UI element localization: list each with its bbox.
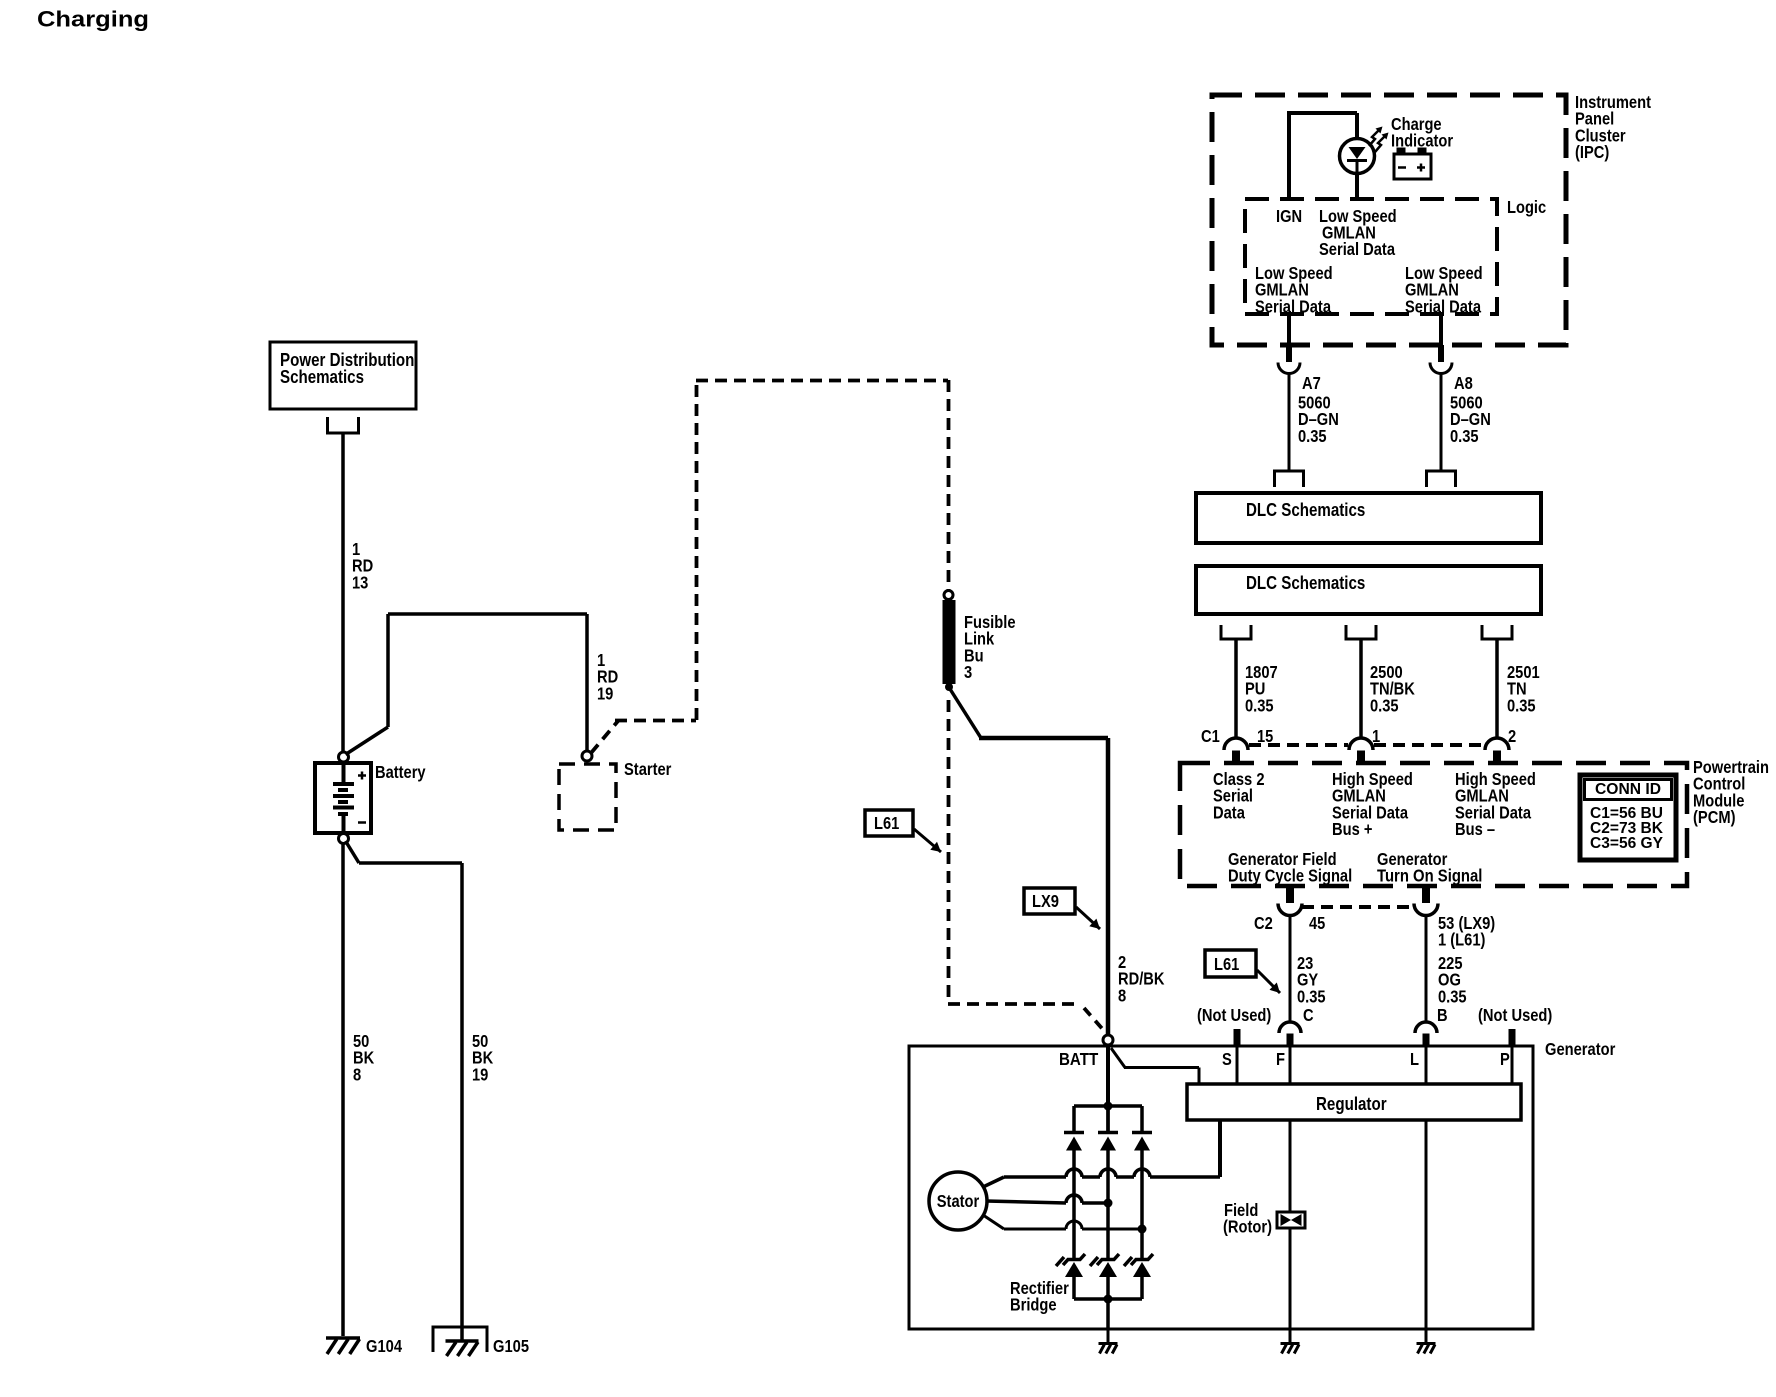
svg-text:(Not Used): (Not Used) — [1478, 1005, 1552, 1025]
svg-text:0.35: 0.35 — [1438, 986, 1467, 1006]
svg-text:Charging: Charging — [37, 7, 149, 32]
svg-text:G104: G104 — [366, 1336, 402, 1356]
svg-text:13: 13 — [352, 572, 369, 592]
svg-text:CONN ID: CONN ID — [1595, 781, 1661, 798]
svg-text:IGN: IGN — [1276, 206, 1302, 226]
svg-text:Serial Data: Serial Data — [1319, 239, 1395, 259]
svg-text:Bus –: Bus – — [1455, 819, 1495, 839]
svg-text:0.35: 0.35 — [1297, 986, 1326, 1006]
svg-text:Battery: Battery — [375, 762, 426, 782]
svg-text:S: S — [1222, 1049, 1232, 1069]
svg-text:F: F — [1276, 1049, 1285, 1069]
svg-text:8: 8 — [1118, 985, 1126, 1005]
svg-text:DLC Schematics: DLC Schematics — [1246, 500, 1365, 520]
svg-text:Turn On Signal: Turn On Signal — [1377, 865, 1482, 885]
svg-text:DLC Schematics: DLC Schematics — [1246, 573, 1365, 593]
svg-text:(Rotor): (Rotor) — [1223, 1216, 1272, 1236]
svg-text:G105: G105 — [493, 1336, 529, 1356]
svg-text:Schematics: Schematics — [280, 367, 364, 387]
svg-text:0.35: 0.35 — [1298, 426, 1327, 446]
svg-text:Stator: Stator — [937, 1191, 980, 1211]
svg-text:Regulator: Regulator — [1316, 1094, 1387, 1114]
svg-text:2: 2 — [1508, 726, 1516, 746]
svg-text:Serial Data: Serial Data — [1405, 296, 1481, 316]
svg-text:C: C — [1303, 1005, 1314, 1025]
svg-text:B: B — [1437, 1005, 1448, 1025]
svg-text:P: P — [1500, 1049, 1510, 1069]
svg-text:8: 8 — [353, 1064, 361, 1084]
svg-text:(IPC): (IPC) — [1575, 142, 1609, 162]
svg-text:LX9: LX9 — [1032, 891, 1059, 911]
svg-text:Starter: Starter — [624, 759, 672, 779]
svg-text:0.35: 0.35 — [1507, 695, 1536, 715]
svg-text:L: L — [1410, 1049, 1419, 1069]
svg-text:L61: L61 — [1214, 954, 1240, 974]
svg-text:L61: L61 — [874, 813, 900, 833]
svg-text:15: 15 — [1257, 726, 1274, 746]
svg-text:19: 19 — [472, 1064, 489, 1084]
svg-text:Logic: Logic — [1507, 197, 1546, 217]
svg-text:Bridge: Bridge — [1010, 1295, 1057, 1315]
svg-text:Generator: Generator — [1545, 1039, 1615, 1059]
svg-text:C1: C1 — [1201, 726, 1220, 746]
svg-text:1: 1 — [1372, 726, 1380, 746]
svg-text:BATT: BATT — [1059, 1049, 1098, 1069]
svg-text:A8: A8 — [1454, 373, 1473, 393]
svg-text:Bus +: Bus + — [1332, 819, 1372, 839]
svg-text:(PCM): (PCM) — [1693, 807, 1736, 827]
svg-text:Duty Cycle Signal: Duty Cycle Signal — [1228, 865, 1352, 885]
svg-text:45: 45 — [1309, 913, 1326, 933]
svg-text:(Not Used): (Not Used) — [1197, 1005, 1271, 1025]
svg-text:Serial Data: Serial Data — [1255, 296, 1331, 316]
svg-text:Data: Data — [1213, 802, 1245, 822]
svg-text:19: 19 — [597, 683, 614, 703]
svg-text:3: 3 — [964, 662, 972, 682]
svg-text:1 (L61): 1 (L61) — [1438, 929, 1485, 949]
svg-text:A7: A7 — [1302, 373, 1321, 393]
svg-text:0.35: 0.35 — [1450, 426, 1479, 446]
svg-text:0.35: 0.35 — [1370, 695, 1399, 715]
svg-text:C3=56 GY: C3=56 GY — [1590, 835, 1663, 852]
svg-text:0.35: 0.35 — [1245, 695, 1274, 715]
svg-text:C2: C2 — [1254, 913, 1273, 933]
